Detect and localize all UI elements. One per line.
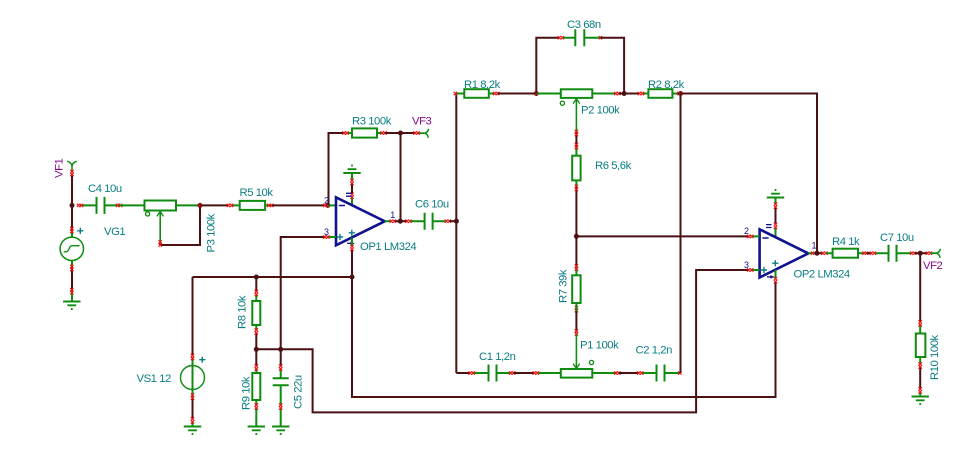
- wire VG1 bottom: [71, 261, 73, 269]
- svg-text:R2 8,2k: R2 8,2k: [648, 79, 685, 91]
- svg-text:C2 1,2n: C2 1,2n: [636, 345, 673, 357]
- ground above OP1: [343, 165, 360, 173]
- wire OP1 pin2 to R3: [329, 133, 345, 205]
- wire OP2 V- to ground: [775, 198, 777, 205]
- svg-text:R4 1k: R4 1k: [832, 236, 860, 248]
- resistor R7: [575, 236, 577, 266]
- svg-text:VG1: VG1: [104, 226, 125, 238]
- capacitor C3: [562, 37, 600, 39]
- wire P2 to R2: [619, 93, 624, 95]
- svg-text:2: 2: [324, 195, 329, 205]
- wire C1 to P1: [514, 372, 535, 374]
- svg-text:C7 10u: C7 10u: [880, 232, 914, 244]
- node output: [918, 251, 923, 256]
- svg-text:VF3: VF3: [412, 116, 432, 128]
- wire R2 node to OP2 output: [681, 94, 818, 254]
- potentiometer P1: [537, 372, 616, 374]
- svg-text:3: 3: [744, 260, 749, 270]
- resistor R5: [200, 204, 229, 206]
- svg-text:1: 1: [390, 210, 395, 220]
- ground below R9: [248, 427, 265, 435]
- potentiometer P3: [119, 204, 200, 206]
- node B top-right: [622, 91, 627, 96]
- capacitor C6: [410, 220, 446, 222]
- svg-text:R3 100k: R3 100k: [352, 116, 392, 128]
- svg-text:R9 10k: R9 10k: [241, 376, 253, 410]
- svg-text:R10 100k: R10 100k: [929, 334, 941, 380]
- ground below C5: [272, 427, 289, 435]
- node C5 top: [278, 347, 283, 352]
- resistor R8: [255, 277, 257, 292]
- wire bottom-left corner: [456, 372, 470, 374]
- wire OP1 output: [385, 220, 391, 222]
- potentiometer P2: [536, 93, 616, 95]
- capacitor C7: [874, 252, 911, 254]
- wire OP1 pin3 input: [281, 237, 325, 349]
- generator VG1: [60, 237, 83, 260]
- node A top-left: [534, 91, 539, 96]
- ground below VS1: [184, 427, 201, 435]
- resistor R1: [455, 93, 495, 95]
- svg-text:OP1 LM324: OP1 LM324: [360, 241, 416, 253]
- wire R4 to C7: [867, 252, 872, 254]
- svg-text:C1 1,2n: C1 1,2n: [479, 351, 516, 363]
- svg-text:1: 1: [812, 241, 817, 251]
- wire filter input vertical: [455, 94, 457, 374]
- wire right filter vertical: [680, 94, 682, 374]
- svg-text:P2 100k: P2 100k: [581, 105, 620, 117]
- svg-text:R6 5,6k: R6 5,6k: [595, 160, 632, 172]
- node P3 output: [198, 203, 203, 208]
- wire C3 left riser: [536, 38, 559, 94]
- wire supply rail: [193, 276, 353, 278]
- wire VG1 top: [71, 205, 73, 230]
- probe VF3: [424, 129, 428, 138]
- node R2 right: [678, 91, 683, 96]
- node input junction: [70, 203, 75, 208]
- resistor R10: [919, 253, 921, 322]
- node R3 right: [398, 131, 403, 136]
- node OP1 output: [398, 219, 403, 224]
- wire OP1 V+ net down: [352, 277, 776, 397]
- ground above OP2: [767, 190, 784, 198]
- svg-text:VF2: VF2: [923, 260, 943, 272]
- wire OP1 V- to ground: [351, 173, 353, 180]
- capacitor C5: [280, 349, 282, 366]
- wire P1 to C2: [619, 372, 639, 374]
- ground below VG1: [63, 302, 80, 310]
- wire OP1 V+ pin down: [351, 238, 353, 247]
- node C6 out: [454, 219, 459, 224]
- svg-text:C6 10u: C6 10u: [415, 199, 449, 211]
- wire C3 right riser: [600, 38, 624, 94]
- op-amp U1 OP1: [336, 197, 385, 245]
- svg-text:C3 68n: C3 68n: [567, 19, 601, 31]
- svg-text:R8 10k: R8 10k: [237, 295, 249, 329]
- wire R5 to OP1 pin2: [272, 204, 325, 206]
- wire VF1 stem: [71, 174, 73, 205]
- wire P3 wiper to right terminal: [160, 205, 200, 245]
- wire R3 to output node: [385, 132, 401, 134]
- wire divider node to bias net: [256, 270, 748, 412]
- node rail OP1: [350, 275, 355, 280]
- node OP1 pin 2: [325, 203, 330, 208]
- resistor R6: [572, 156, 580, 181]
- probe VF2: [930, 252, 936, 254]
- node mid filter: [574, 234, 579, 239]
- wire R3 node down to OP1 output: [400, 133, 402, 221]
- svg-text:VS1 12: VS1 12: [137, 373, 172, 385]
- capacitor C1: [473, 372, 510, 374]
- svg-text:R7 39k: R7 39k: [558, 269, 570, 303]
- resistor R4: [826, 252, 864, 254]
- svg-text:C5 22u: C5 22u: [293, 375, 305, 409]
- wire OP2 pin3 stub: [752, 269, 760, 271]
- wire OP2 pin2 stub: [752, 235, 760, 237]
- wire VF3 stub: [401, 132, 416, 134]
- svg-text:R5 10k: R5 10k: [240, 187, 274, 199]
- svg-text:OP2 LM324: OP2 LM324: [794, 269, 850, 281]
- wire node to OP2 pin2: [576, 235, 748, 237]
- wire OP2 V+ pin down: [775, 270, 777, 279]
- resistor R3: [347, 132, 383, 134]
- probe VF1: [67, 161, 77, 171]
- wire C7 to output node: [915, 252, 928, 254]
- wire R1 to P2: [498, 93, 537, 95]
- svg-text:R1 8,2k: R1 8,2k: [464, 79, 501, 91]
- svg-text:P1 100k: P1 100k: [580, 340, 619, 352]
- op-amp U2 OP2: [760, 229, 809, 277]
- wire R7 to P1 wiper: [575, 334, 577, 369]
- wire P2 wiper to R6: [575, 132, 577, 148]
- source VS1: [192, 277, 194, 356]
- wire OP2 output: [808, 252, 816, 254]
- svg-text:2: 2: [744, 226, 749, 236]
- wire VS1 to ground: [192, 390, 194, 398]
- svg-text:VF1: VF1: [54, 158, 66, 178]
- svg-text:P3 100k: P3 100k: [206, 213, 218, 252]
- resistor R2: [642, 93, 679, 95]
- resistor R9: [255, 349, 257, 366]
- node rail R8: [254, 275, 259, 280]
- svg-text:C4 10u: C4 10u: [88, 183, 122, 195]
- node divider: [254, 347, 259, 352]
- ground below R10: [912, 397, 929, 405]
- node OP2 output: [815, 251, 820, 256]
- capacitor C2: [642, 372, 681, 374]
- capacitor C4: [80, 204, 119, 206]
- wire C6 to filter: [449, 220, 456, 222]
